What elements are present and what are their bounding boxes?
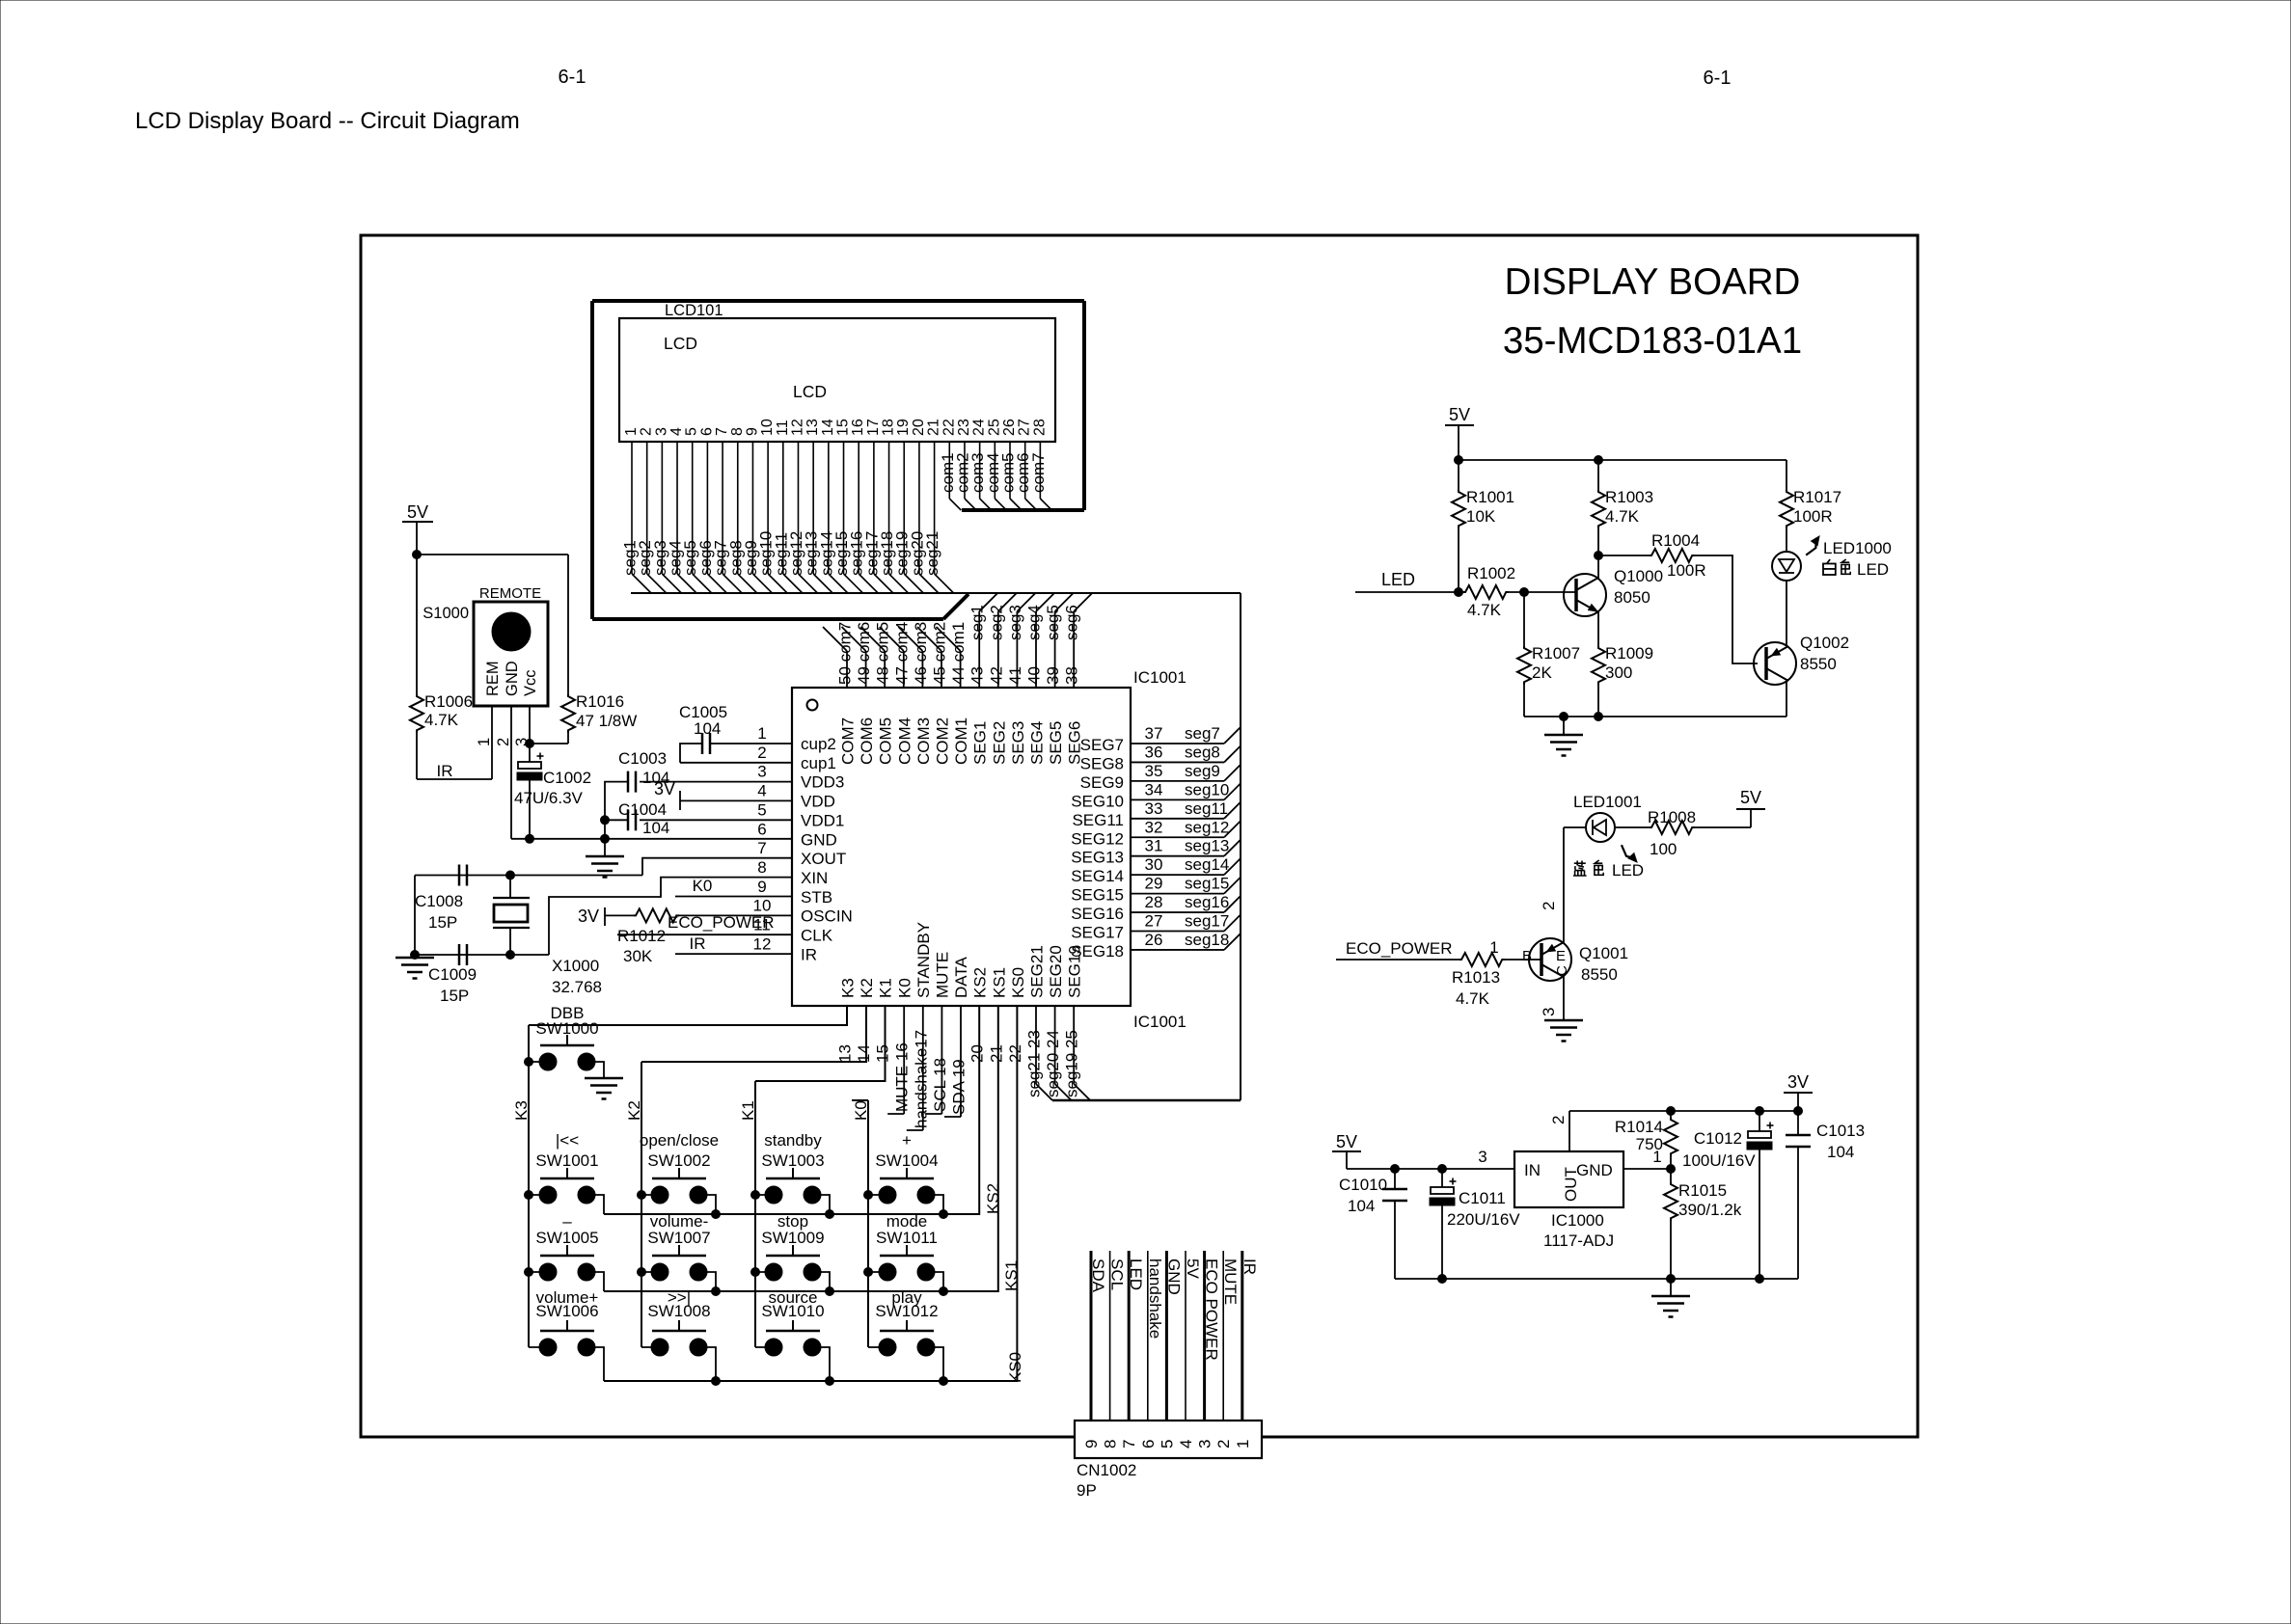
svg-text:DISPLAY BOARD: DISPLAY BOARD	[1505, 261, 1801, 303]
svg-text:SEG19: SEG19	[1066, 945, 1084, 998]
svg-text:X1000: X1000	[552, 957, 599, 975]
svg-text:47 1/8W: 47 1/8W	[576, 712, 637, 730]
svg-text:IC1001: IC1001	[1133, 668, 1186, 687]
svg-text:4: 4	[1177, 1440, 1195, 1448]
svg-text:C1003: C1003	[618, 749, 667, 768]
svg-text:16: 16	[850, 419, 866, 436]
svg-text:seg20 24: seg20 24	[1044, 1030, 1062, 1097]
svg-text:KS2: KS2	[984, 1183, 1002, 1214]
svg-text:SEG14: SEG14	[1071, 867, 1124, 885]
svg-text:8550: 8550	[1800, 655, 1837, 673]
svg-text:seg12: seg12	[1185, 818, 1229, 836]
svg-text:28: 28	[1145, 893, 1163, 911]
svg-text:SEG12: SEG12	[1071, 829, 1124, 848]
svg-text:IR: IR	[1241, 1259, 1259, 1275]
svg-text:K3: K3	[512, 1100, 531, 1121]
svg-text:MUTE: MUTE	[934, 952, 952, 998]
svg-text:R1016: R1016	[576, 692, 624, 711]
svg-text:28: 28	[1031, 419, 1048, 436]
svg-text:seg21: seg21	[923, 531, 941, 576]
svg-text:20: 20	[968, 1044, 987, 1063]
svg-text:34: 34	[1145, 780, 1163, 798]
svg-text:COM6: COM6	[858, 717, 876, 765]
svg-text:1: 1	[1234, 1440, 1252, 1448]
svg-text:4.7K: 4.7K	[424, 711, 459, 729]
svg-text:SW1005: SW1005	[535, 1229, 598, 1247]
svg-text:IN: IN	[1524, 1161, 1541, 1179]
svg-text:K1: K1	[739, 1100, 757, 1121]
svg-text:6: 6	[1139, 1440, 1158, 1448]
svg-text:C1002: C1002	[543, 769, 591, 787]
svg-text:seg18: seg18	[1185, 931, 1229, 949]
svg-text:6: 6	[698, 427, 715, 436]
svg-text:38: 38	[1063, 666, 1081, 685]
svg-text:10K: 10K	[1466, 507, 1496, 526]
svg-text:seg8: seg8	[1185, 743, 1220, 761]
svg-text:Vcc: Vcc	[522, 669, 539, 696]
svg-text:XIN: XIN	[801, 869, 828, 887]
svg-text:C1008: C1008	[415, 892, 463, 910]
svg-text:1: 1	[1489, 938, 1498, 957]
svg-text:5: 5	[757, 800, 766, 819]
svg-text:13: 13	[836, 1044, 855, 1063]
svg-text:K0: K0	[895, 978, 914, 998]
svg-text:27: 27	[1017, 419, 1033, 436]
svg-text:seg9: seg9	[1185, 762, 1220, 780]
svg-text:19: 19	[895, 419, 912, 436]
svg-text:SEG3: SEG3	[1009, 721, 1027, 765]
svg-text:14: 14	[855, 1044, 873, 1063]
svg-text:B: B	[1522, 948, 1532, 964]
svg-text:ECO POWER: ECO POWER	[1203, 1259, 1221, 1361]
svg-text:seg10: seg10	[1185, 780, 1229, 798]
svg-text:seg6: seg6	[1063, 605, 1081, 640]
svg-text:DATA: DATA	[952, 957, 970, 998]
svg-text:seg16: seg16	[1185, 893, 1229, 911]
svg-text:SEG4: SEG4	[1028, 721, 1047, 765]
svg-text:ECO_POWER: ECO_POWER	[668, 913, 775, 932]
svg-text:SW1004: SW1004	[875, 1151, 938, 1170]
svg-text:3V: 3V	[1787, 1072, 1809, 1092]
svg-text:LED1000: LED1000	[1823, 539, 1892, 557]
svg-text:CN1002: CN1002	[1077, 1461, 1136, 1479]
svg-text:E: E	[1556, 948, 1566, 964]
svg-text:15P: 15P	[440, 987, 469, 1005]
svg-text:S1000: S1000	[423, 605, 469, 622]
svg-text:24: 24	[971, 419, 988, 436]
svg-text:12: 12	[753, 934, 772, 953]
svg-text:seg4: seg4	[1025, 605, 1044, 640]
svg-text:11: 11	[775, 420, 791, 436]
svg-text:SW1007: SW1007	[647, 1229, 710, 1247]
svg-text:IR: IR	[690, 934, 706, 953]
svg-text:C1013: C1013	[1816, 1122, 1865, 1140]
svg-text:2: 2	[1214, 1440, 1233, 1448]
svg-text:43: 43	[968, 666, 987, 685]
svg-text:SW1003: SW1003	[761, 1151, 824, 1170]
svg-text:30: 30	[1145, 855, 1163, 874]
svg-text:SEG7: SEG7	[1080, 736, 1124, 754]
svg-text:SEG10: SEG10	[1071, 792, 1124, 810]
svg-text:12: 12	[789, 419, 805, 436]
svg-text:LED: LED	[1857, 560, 1889, 579]
svg-text:R1014: R1014	[1615, 1118, 1663, 1136]
svg-text:1: 1	[757, 724, 766, 743]
svg-text:104: 104	[694, 719, 721, 738]
svg-text:3V: 3V	[654, 779, 675, 798]
svg-text:K0: K0	[693, 877, 713, 895]
svg-text:K1: K1	[877, 978, 895, 998]
svg-text:C1010: C1010	[1339, 1176, 1387, 1194]
svg-text:104: 104	[642, 819, 669, 837]
svg-text:9P: 9P	[1077, 1481, 1097, 1500]
svg-text:7: 7	[1120, 1440, 1138, 1448]
svg-text:42: 42	[987, 666, 1005, 685]
svg-text:cup1: cup1	[801, 754, 836, 772]
svg-text:5: 5	[1158, 1440, 1176, 1448]
svg-text:20: 20	[911, 419, 927, 436]
svg-text:3: 3	[1478, 1148, 1486, 1166]
svg-text:seg7: seg7	[1185, 724, 1220, 743]
svg-text:8: 8	[1102, 1440, 1120, 1448]
svg-text:5V: 5V	[1449, 405, 1470, 424]
svg-text:1117-ADJ: 1117-ADJ	[1543, 1232, 1614, 1250]
svg-text:R1004: R1004	[1651, 531, 1700, 550]
svg-text:K3: K3	[839, 978, 858, 998]
svg-text:LCD Display Board -- Circuit D: LCD Display Board -- Circuit Diagram	[135, 108, 520, 134]
svg-text:9: 9	[744, 427, 760, 436]
svg-text:5V: 5V	[1740, 788, 1761, 807]
svg-text:SW1008: SW1008	[647, 1302, 710, 1320]
svg-text:handshake: handshake	[1146, 1259, 1164, 1339]
svg-text:GND: GND	[801, 830, 837, 849]
svg-text:SW1002: SW1002	[647, 1151, 710, 1170]
svg-text:STANDBY: STANDBY	[914, 922, 933, 998]
svg-text:29: 29	[1145, 875, 1163, 893]
svg-text:3V: 3V	[578, 907, 599, 926]
svg-text:VDD3: VDD3	[801, 773, 844, 792]
svg-text:22: 22	[941, 419, 957, 436]
svg-text:COM7: COM7	[839, 717, 858, 765]
svg-text:CLK: CLK	[801, 927, 833, 945]
svg-text:4: 4	[668, 427, 685, 436]
svg-text:KS1: KS1	[990, 967, 1008, 998]
svg-text:300: 300	[1605, 663, 1632, 682]
svg-text:SEG8: SEG8	[1080, 754, 1124, 772]
svg-text:R1009: R1009	[1605, 644, 1653, 663]
svg-text:2: 2	[757, 744, 766, 762]
svg-text:SW1009: SW1009	[761, 1229, 824, 1247]
svg-text:30K: 30K	[623, 947, 653, 965]
svg-text:+: +	[902, 1131, 912, 1150]
svg-text:SW1001: SW1001	[535, 1151, 598, 1170]
svg-text:SCL: SCL	[1108, 1259, 1127, 1290]
svg-text:26: 26	[1145, 931, 1163, 949]
svg-text:41: 41	[1006, 666, 1024, 685]
svg-text:1: 1	[623, 427, 640, 436]
svg-text:SW1000: SW1000	[535, 1019, 598, 1038]
svg-text:SW1012: SW1012	[875, 1302, 938, 1320]
svg-text:IC1000: IC1000	[1551, 1211, 1604, 1230]
svg-text:R1013: R1013	[1452, 968, 1500, 987]
svg-text:SEG1: SEG1	[971, 721, 990, 765]
svg-text:REM: REM	[484, 661, 502, 696]
svg-text:SEG11: SEG11	[1072, 811, 1124, 829]
svg-text:104: 104	[1827, 1143, 1854, 1161]
svg-text:SW1011: SW1011	[876, 1229, 938, 1247]
svg-text:Q1000: Q1000	[1614, 567, 1663, 585]
svg-text:VDD1: VDD1	[801, 811, 844, 829]
svg-text:9: 9	[1082, 1440, 1101, 1448]
svg-text:Q1001: Q1001	[1579, 944, 1628, 962]
svg-text:5V: 5V	[407, 502, 428, 522]
svg-text:COM2: COM2	[934, 717, 952, 765]
svg-text:104: 104	[1348, 1197, 1375, 1215]
svg-text:LED: LED	[1612, 861, 1644, 880]
svg-text:33: 33	[1145, 799, 1163, 818]
svg-text:SDA 19: SDA 19	[950, 1059, 968, 1115]
svg-text:SEG13: SEG13	[1071, 849, 1124, 867]
svg-text:8550: 8550	[1581, 965, 1618, 984]
svg-text:COM1: COM1	[952, 717, 970, 765]
svg-text:R1007: R1007	[1532, 644, 1580, 663]
svg-text:1: 1	[476, 738, 493, 746]
svg-text:seg3: seg3	[1006, 605, 1024, 640]
svg-text:COM3: COM3	[914, 717, 933, 765]
svg-text:standby: standby	[764, 1131, 822, 1150]
svg-text:com7: com7	[1029, 452, 1048, 493]
svg-text:SEG5: SEG5	[1047, 721, 1065, 765]
svg-text:C1012: C1012	[1694, 1129, 1742, 1148]
svg-text:21: 21	[926, 419, 942, 436]
svg-text:seg2: seg2	[987, 605, 1005, 640]
svg-text:COM5: COM5	[877, 717, 895, 765]
svg-text:XOUT: XOUT	[801, 850, 846, 868]
svg-text:R1017: R1017	[1793, 488, 1841, 506]
svg-text:27: 27	[1145, 912, 1163, 931]
svg-text:17: 17	[865, 419, 882, 436]
svg-text:C1009: C1009	[428, 965, 477, 984]
svg-text:SEG9: SEG9	[1080, 773, 1124, 792]
svg-text:9: 9	[757, 878, 766, 896]
svg-text:R1001: R1001	[1466, 488, 1514, 506]
svg-text:32.768: 32.768	[552, 978, 602, 996]
svg-text:COM4: COM4	[895, 717, 914, 765]
svg-text:40: 40	[1025, 666, 1044, 685]
svg-text:390/1.2k: 390/1.2k	[1678, 1201, 1742, 1219]
svg-text:25: 25	[986, 419, 1002, 436]
svg-text:SCL 18: SCL 18	[931, 1058, 949, 1112]
svg-text:KS1: KS1	[1002, 1260, 1021, 1291]
svg-text:SW1006: SW1006	[535, 1302, 598, 1320]
svg-text:5V: 5V	[1184, 1259, 1202, 1279]
svg-text:C1011: C1011	[1459, 1189, 1506, 1207]
svg-text:SEG2: SEG2	[990, 721, 1008, 765]
svg-text:4: 4	[757, 782, 766, 800]
svg-text:|<<: |<<	[556, 1131, 579, 1150]
svg-text:35: 35	[1145, 762, 1163, 780]
svg-text:VDD: VDD	[801, 793, 835, 811]
svg-text:2: 2	[1549, 1116, 1568, 1124]
svg-text:6-1: 6-1	[1704, 68, 1732, 89]
svg-text:R1006: R1006	[424, 692, 473, 711]
svg-text:KS0: KS0	[1009, 967, 1027, 998]
svg-text:seg11: seg11	[1185, 799, 1228, 818]
svg-text:R1002: R1002	[1467, 564, 1515, 582]
svg-text:GND: GND	[1576, 1161, 1613, 1179]
svg-text:K2: K2	[625, 1100, 643, 1121]
svg-text:SEG21: SEG21	[1028, 945, 1047, 998]
svg-text:39: 39	[1044, 666, 1062, 685]
svg-text:2: 2	[495, 738, 512, 746]
svg-text:10: 10	[759, 419, 776, 436]
svg-text:3: 3	[1540, 1008, 1558, 1016]
svg-text:seg21 23: seg21 23	[1025, 1030, 1044, 1097]
svg-text:IC1001: IC1001	[1133, 1013, 1186, 1031]
svg-text:IR: IR	[437, 762, 453, 780]
svg-text:26: 26	[1001, 419, 1018, 436]
svg-text:GND: GND	[1164, 1259, 1183, 1295]
svg-text:STB: STB	[801, 888, 832, 907]
svg-text:SEG16: SEG16	[1071, 905, 1124, 923]
svg-text:SW1010: SW1010	[761, 1302, 824, 1320]
svg-text:LCD: LCD	[793, 382, 827, 401]
svg-text:7: 7	[714, 427, 730, 436]
svg-text:4.7K: 4.7K	[1605, 507, 1640, 526]
svg-text:LCD: LCD	[664, 334, 697, 353]
svg-text:seg15: seg15	[1185, 875, 1229, 893]
svg-text:KS2: KS2	[971, 967, 990, 998]
svg-text:5V: 5V	[1336, 1132, 1357, 1151]
svg-text:2K: 2K	[1532, 663, 1552, 682]
svg-text:MUTE 16: MUTE 16	[893, 1042, 912, 1112]
svg-text:seg14: seg14	[1185, 855, 1229, 874]
svg-text:32: 32	[1145, 818, 1163, 836]
svg-text:4.7K: 4.7K	[1467, 601, 1502, 619]
svg-text:23: 23	[956, 419, 972, 436]
svg-text:open/close: open/close	[640, 1131, 719, 1150]
svg-text:IR: IR	[801, 945, 817, 963]
svg-text:MUTE: MUTE	[1221, 1259, 1240, 1305]
svg-text:cup2: cup2	[801, 735, 836, 753]
svg-text:3: 3	[1196, 1440, 1214, 1448]
svg-text:8050: 8050	[1614, 588, 1650, 607]
svg-text:100R: 100R	[1667, 561, 1706, 580]
svg-text:14: 14	[820, 419, 836, 436]
svg-text:SDA: SDA	[1089, 1259, 1107, 1293]
svg-text:18: 18	[881, 419, 897, 436]
svg-text:seg13: seg13	[1185, 837, 1229, 855]
svg-text:ECO_POWER: ECO_POWER	[1346, 939, 1453, 958]
svg-text:7: 7	[757, 839, 766, 857]
svg-text:LED: LED	[1127, 1259, 1145, 1290]
svg-text:100: 100	[1650, 840, 1677, 858]
svg-text:KS0: KS0	[1006, 1352, 1024, 1383]
svg-text:LED1001: LED1001	[1573, 793, 1642, 811]
svg-text:SEG20: SEG20	[1047, 945, 1065, 998]
svg-text:OSCIN: OSCIN	[801, 907, 853, 926]
svg-text:22: 22	[1006, 1044, 1024, 1063]
svg-text:1: 1	[1652, 1148, 1661, 1166]
svg-text:44 com1: 44 com1	[949, 622, 968, 685]
svg-text:REMOTE: REMOTE	[479, 585, 541, 602]
svg-text:21: 21	[987, 1044, 1005, 1063]
svg-text:C: C	[1554, 965, 1570, 976]
svg-text:100R: 100R	[1793, 507, 1833, 526]
svg-text:4.7K: 4.7K	[1456, 989, 1490, 1008]
svg-text:220U/16V: 220U/16V	[1447, 1210, 1520, 1229]
svg-text:2: 2	[1540, 902, 1558, 910]
svg-text:K0: K0	[852, 1100, 870, 1121]
svg-text:seg5: seg5	[1044, 605, 1062, 640]
svg-text:15P: 15P	[428, 913, 457, 932]
svg-text:8: 8	[757, 858, 766, 877]
svg-text:5: 5	[684, 427, 700, 436]
svg-text:seg19 25: seg19 25	[1063, 1030, 1081, 1097]
svg-text:15: 15	[874, 1044, 892, 1063]
svg-text:6: 6	[757, 820, 766, 838]
svg-text:100U/16V: 100U/16V	[1682, 1151, 1756, 1170]
svg-text:6-1: 6-1	[559, 67, 586, 88]
svg-text:8: 8	[729, 427, 746, 436]
svg-text:3: 3	[653, 427, 669, 436]
svg-text:R1012: R1012	[617, 927, 666, 945]
svg-text:C1004: C1004	[618, 800, 667, 819]
svg-text:15: 15	[835, 419, 852, 436]
svg-text:seg1: seg1	[968, 605, 987, 640]
svg-text:R1015: R1015	[1678, 1181, 1727, 1200]
svg-text:R1003: R1003	[1605, 488, 1653, 506]
svg-text:SEG17: SEG17	[1071, 924, 1124, 942]
svg-text:37: 37	[1145, 724, 1163, 743]
svg-text:31: 31	[1145, 837, 1163, 855]
svg-text:GND: GND	[504, 661, 521, 696]
svg-text:3: 3	[757, 763, 766, 781]
svg-text:K2: K2	[858, 978, 876, 998]
svg-text:LCD101: LCD101	[665, 302, 723, 319]
svg-text:10: 10	[753, 897, 772, 915]
svg-text:seg17: seg17	[1185, 912, 1229, 931]
svg-text:47U/6.3V: 47U/6.3V	[514, 789, 584, 807]
svg-text:36: 36	[1145, 743, 1163, 761]
svg-text:R1008: R1008	[1648, 808, 1696, 826]
svg-text:13: 13	[805, 419, 821, 436]
svg-text:LED: LED	[1381, 570, 1415, 589]
svg-text:35-MCD183-01A1: 35-MCD183-01A1	[1503, 320, 1802, 362]
svg-text:SEG15: SEG15	[1071, 886, 1124, 905]
svg-text:2: 2	[639, 427, 655, 436]
svg-text:Q1002: Q1002	[1800, 634, 1849, 652]
